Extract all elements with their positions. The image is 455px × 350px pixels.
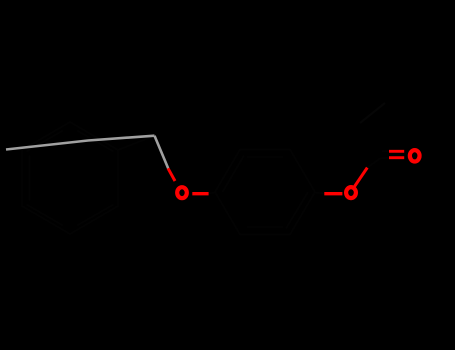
faint bond stubs near O atoms and carbonyl xyxy=(209,151,389,193)
bond: CH2 down to ether O, carbon half (bright gray) xyxy=(155,136,169,169)
bond: O1 to ring, oxygen half (red) xyxy=(192,192,208,195)
bond: ring to O2, oxygen half (red) xyxy=(324,192,342,195)
bond: C=O main line, oxygen half (red) xyxy=(389,156,404,159)
bond: C=O second line of double bond (red) xyxy=(389,150,404,153)
benzene ring (benzyl phenyl, faint) xyxy=(22,122,118,234)
central benzene ring (faint) xyxy=(215,150,315,235)
wire: ring to CH2 (faint) xyxy=(118,136,155,150)
atom O1: ether oxygen xyxy=(177,187,187,198)
atom O3: carbonyl oxygen xyxy=(410,150,420,161)
bond: acetyl methyl stub (dim) xyxy=(360,103,385,123)
bond: O2 up to carbonyl C, oxygen half (red) xyxy=(355,168,368,187)
bond: chain line to CH2 apex (bright) xyxy=(6,136,155,150)
atom O2: ester oxygen xyxy=(346,187,356,198)
bond: CH2-O, oxygen half (red) xyxy=(168,168,175,181)
